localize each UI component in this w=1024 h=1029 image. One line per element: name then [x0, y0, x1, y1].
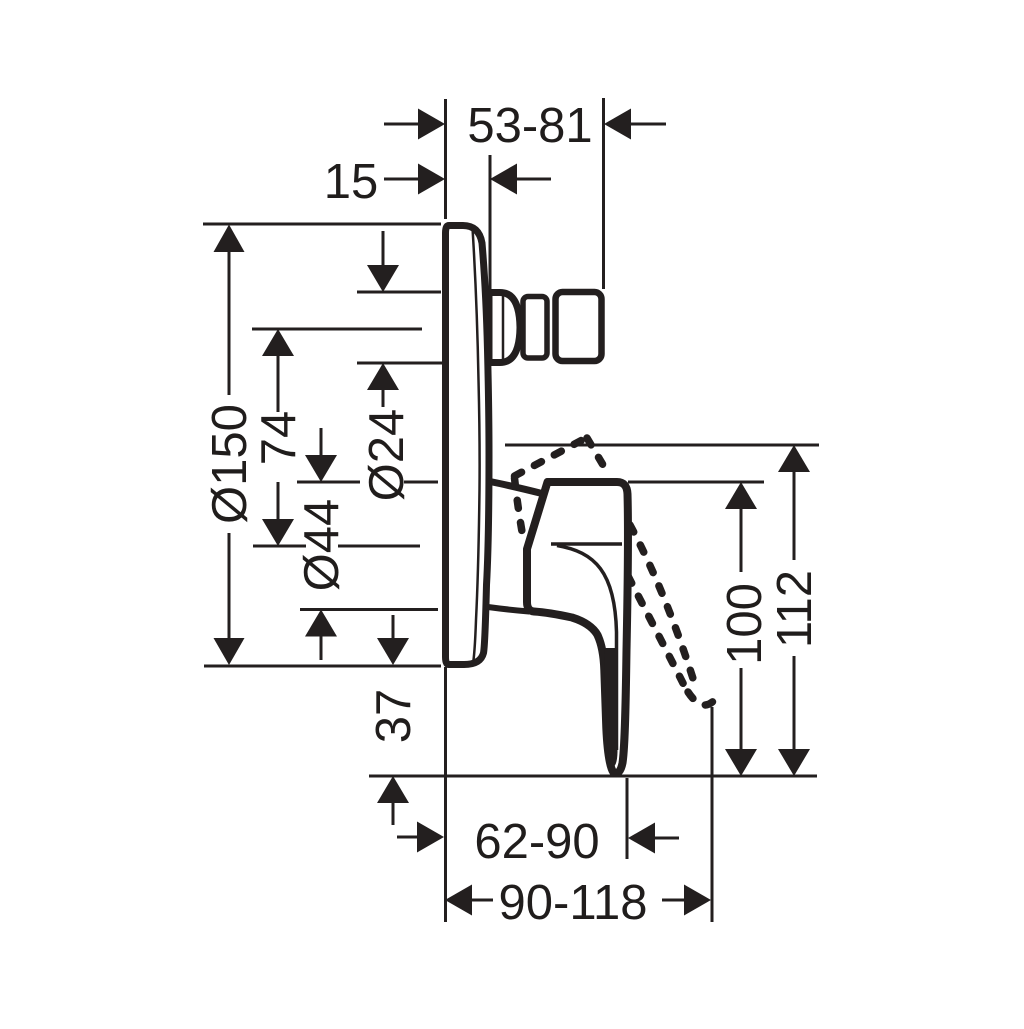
- svg-text:112: 112: [768, 570, 822, 648]
- svg-text:62-90: 62-90: [474, 815, 599, 869]
- svg-text:53-81: 53-81: [467, 99, 592, 153]
- svg-text:15: 15: [324, 155, 379, 209]
- svg-text:100: 100: [718, 583, 772, 665]
- svg-text:90-118: 90-118: [499, 876, 648, 930]
- svg-text:Ø24: Ø24: [360, 409, 414, 502]
- svg-text:74: 74: [252, 411, 306, 466]
- svg-text:Ø150: Ø150: [203, 404, 257, 524]
- svg-text:Ø44: Ø44: [295, 499, 349, 592]
- svg-text:37: 37: [367, 689, 421, 744]
